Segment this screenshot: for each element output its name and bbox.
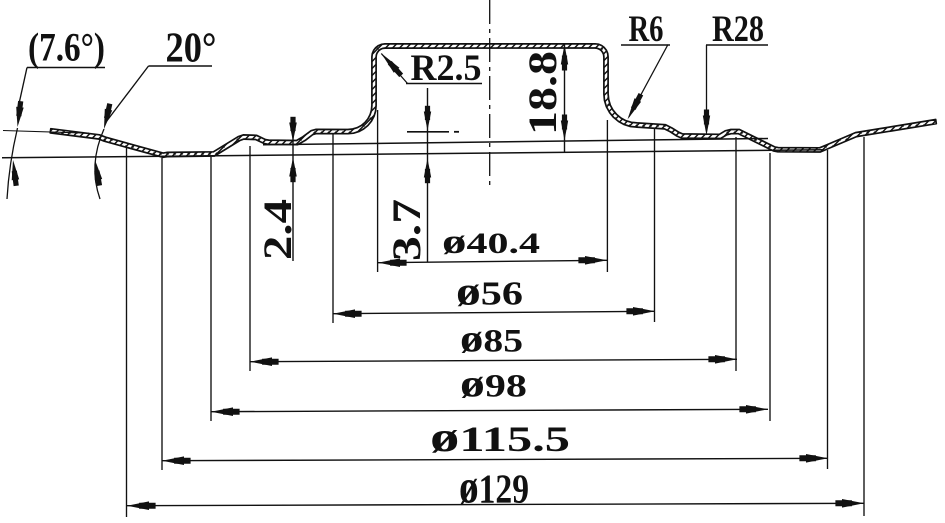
svg-text:ø129: ø129 [459,461,529,514]
svg-text:20°: 20° [166,26,217,72]
dimension dia 115.5 [162,458,828,460]
ref line rim plane [3,131,89,134]
centerline [489,0,491,189]
angle dim 7.6 [19,68,28,107]
center tick [407,131,449,133]
extension lines left [126,147,128,517]
svg-text:R2.5: R2.5 [411,48,482,89]
dimension dia 40.4 [378,260,607,262]
svg-text:3.7: 3.7 [384,199,429,261]
dimension 18.8 [564,45,566,153]
datum line bottom plane [2,150,824,158]
dimension 2.4 [292,118,294,261]
svg-text:18.8: 18.8 [520,51,565,135]
svg-text:2.4: 2.4 [255,199,300,260]
svg-text:R6: R6 [629,9,664,50]
leader R2.5 [381,54,407,84]
dimension dia 56 [333,311,655,313]
svg-text:ø98: ø98 [460,363,527,406]
leader R28 [706,45,708,118]
svg-text:ø115.5: ø115.5 [430,415,570,461]
leader R6 [629,45,668,118]
dimension dia 85 [250,359,737,361]
svg-text:ø85: ø85 [460,318,523,361]
extension lines right [606,120,608,272]
dimension 3.7 [427,88,429,262]
svg-text:ø56: ø56 [456,269,523,314]
svg-text:ø40.4: ø40.4 [442,222,540,261]
angle dim 20 [106,66,149,122]
dimension dia 129 [127,503,864,505]
sheet-metal profile section [50,44,936,158]
svg-text:R28: R28 [712,9,764,50]
dimension dia 98 [211,409,768,411]
datum line mounting plane [263,139,768,145]
svg-text:(7.6°): (7.6°) [28,25,105,70]
